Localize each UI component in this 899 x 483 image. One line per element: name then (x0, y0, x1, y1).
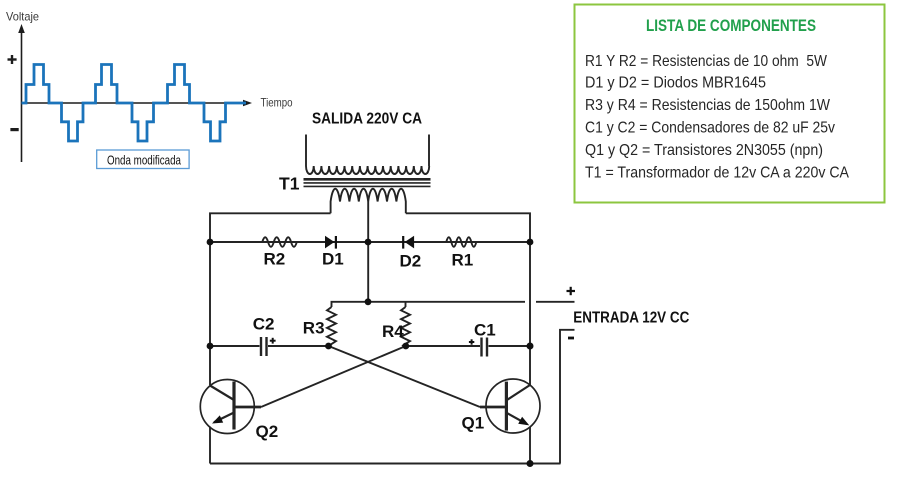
svg-text:C1 y C2 = Condensadores de 82: C1 y C2 = Condensadores de 82 uF 25v (585, 120, 835, 137)
svg-text:T1: T1 (279, 174, 300, 194)
svg-text:D1 y D2 = Diodos MBR1645: D1 y D2 = Diodos MBR1645 (585, 74, 766, 91)
svg-text:Q1: Q1 (462, 414, 485, 433)
svg-text:R1: R1 (452, 251, 474, 270)
svg-text:SALIDA 220V CA: SALIDA 220V CA (312, 111, 422, 128)
svg-text:R3: R3 (303, 319, 325, 338)
svg-text:Q1 y Q2 = Transistores 2N3055: Q1 y Q2 = Transistores 2N3055 (npn) (585, 142, 823, 159)
svg-text:R4: R4 (382, 322, 404, 341)
svg-text:R2: R2 (264, 250, 286, 269)
svg-text:LISTA DE COMPONENTES: LISTA DE COMPONENTES (646, 16, 816, 35)
svg-text:C2: C2 (253, 315, 275, 334)
svg-text:D2: D2 (400, 252, 422, 271)
svg-text:T1 = Transformador de 12v CA a: T1 = Transformador de 12v CA a 220v CA (585, 164, 849, 181)
svg-text:Q2: Q2 (256, 422, 279, 441)
svg-text:ENTRADA 12V CC: ENTRADA 12V CC (573, 309, 689, 326)
svg-text:Onda modificada: Onda modificada (107, 153, 182, 168)
svg-text:D1: D1 (322, 250, 344, 269)
svg-text:R1 Y R2 = Resistencias de 10 o: R1 Y R2 = Resistencias de 10 ohm 5W (585, 53, 828, 70)
svg-text:C1: C1 (474, 321, 496, 340)
svg-text:Tiempo: Tiempo (261, 96, 293, 110)
svg-text:R3 y R4 = Resistencias de 150o: R3 y R4 = Resistencias de 150ohm 1W (585, 97, 831, 114)
svg-text:Voltaje: Voltaje (6, 10, 39, 24)
